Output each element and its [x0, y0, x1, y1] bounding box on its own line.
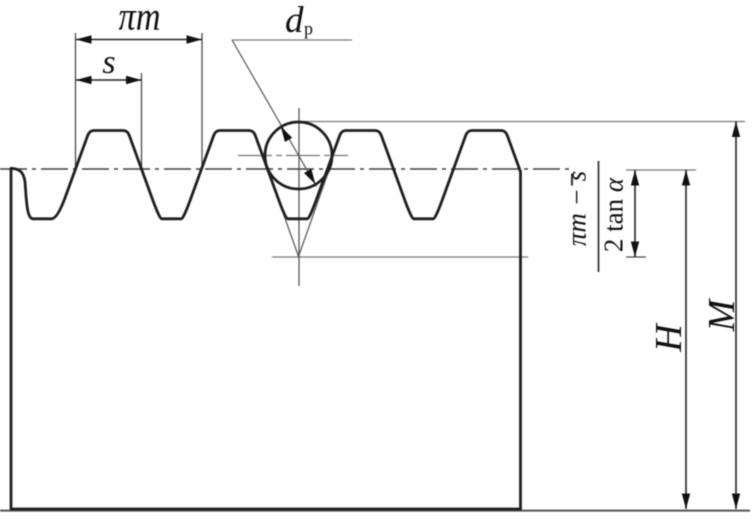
svg-text:H: H	[648, 322, 690, 353]
svg-text:M: M	[701, 297, 743, 332]
svg-text:2 tan α: 2 tan α	[599, 177, 629, 252]
svg-text:πm − s: πm − s	[562, 171, 592, 246]
svg-text:d: d	[285, 0, 304, 41]
svg-text:p: p	[304, 19, 313, 39]
svg-text:s: s	[102, 44, 115, 81]
svg-text:πm: πm	[119, 0, 161, 39]
